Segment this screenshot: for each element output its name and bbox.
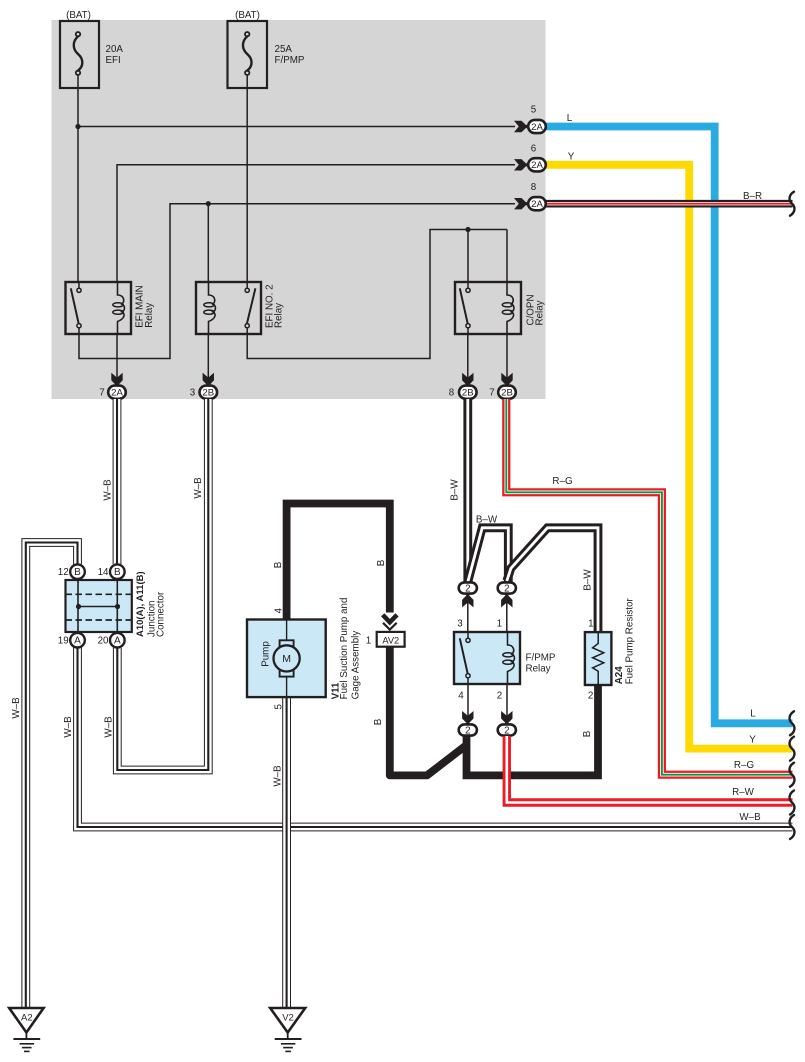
arrow into 3-2B	[203, 373, 214, 388]
connector pin 5 2A	[528, 120, 546, 133]
wire W-B 3-2B loop to junction connector 20A	[117, 399, 208, 770]
svg-text:F/PMP: F/PMP	[526, 653, 556, 664]
svg-text:8: 8	[449, 388, 455, 399]
wire B pump to AV2	[287, 504, 390, 621]
svg-text:B–W: B–W	[582, 569, 593, 591]
wire C/OPN relay switch feed	[467, 230, 469, 283]
relay F/PMP box	[454, 632, 520, 684]
relay EFI NO.2 switch	[245, 282, 255, 334]
svg-text:2A: 2A	[531, 160, 543, 171]
junction connector pin 20 A	[110, 633, 125, 648]
svg-text:(BAT): (BAT)	[235, 10, 260, 21]
arrow out of pin 1	[501, 593, 512, 608]
wire W-B junction connector 12B to ground A2	[26, 543, 78, 1008]
wire node to connector pin 5	[78, 126, 515, 128]
svg-text:L: L	[750, 709, 756, 720]
svg-text:1: 1	[366, 635, 371, 646]
relay EFI NO.2 box	[196, 282, 261, 334]
curl off-page R-G	[790, 763, 795, 787]
curl off-page L	[790, 711, 795, 735]
label A24 Fuel Pump Resistor	[614, 598, 636, 685]
svg-text:B: B	[373, 718, 384, 725]
svg-text:EFI: EFI	[106, 55, 121, 66]
wire F/PMP pin 2 lead	[506, 684, 508, 724]
label C/OPN Relay	[525, 294, 545, 325]
pump V11 box	[247, 620, 326, 698]
wire C/OPN coil to connector 7-2B	[506, 334, 508, 385]
label EFI MAIN Relay	[134, 285, 155, 327]
svg-text:R–G: R–G	[734, 760, 754, 771]
connector 2 below pin 4	[459, 724, 477, 736]
relay C/OPN box	[455, 282, 521, 334]
connector pin 8 2A	[528, 197, 546, 210]
curl off-page W-B	[790, 815, 795, 839]
relay F/PMP coil	[503, 632, 515, 684]
svg-text:(BAT): (BAT)	[66, 10, 91, 21]
fuse 20A EFI	[60, 21, 99, 88]
svg-text:W–B: W–B	[11, 697, 22, 719]
svg-text:5: 5	[531, 105, 537, 116]
svg-text:2: 2	[504, 583, 509, 594]
svg-text:Fuel Pump Resistor: Fuel Pump Resistor	[625, 598, 636, 685]
connector 7 2A	[108, 386, 126, 399]
connector 2 above pin 3	[459, 582, 477, 594]
wire EFI NO.2 relay coil feed	[207, 204, 209, 282]
connector 8 2B	[459, 386, 477, 399]
svg-text:7: 7	[489, 388, 494, 399]
wire C/OPN switch to connector 8-2B	[467, 334, 469, 385]
junction node on EFI fuse line	[75, 124, 80, 129]
wire B-W jumper pin3 to pin1	[468, 528, 509, 582]
svg-text:Relay: Relay	[144, 303, 155, 328]
label V11 Fuel Suction Pump and Gage Assembly	[331, 598, 362, 700]
svg-text:2: 2	[465, 725, 470, 736]
wire R-G 7-2B to off-page	[506, 399, 792, 775]
svg-text:25A: 25A	[275, 44, 293, 55]
svg-text:Y: Y	[749, 735, 756, 746]
svg-text:2: 2	[588, 691, 593, 702]
svg-text:Relay: Relay	[535, 300, 546, 325]
svg-text:8: 8	[531, 182, 537, 193]
curl off-page B-R	[790, 192, 795, 216]
svg-text:2: 2	[465, 583, 470, 594]
wire W-B pump to ground V2	[282, 696, 291, 1007]
svg-text:7: 7	[99, 388, 104, 399]
svg-text:6: 6	[531, 144, 537, 155]
wire F/PMP pin 1 lead	[506, 595, 508, 632]
svg-text:5: 5	[274, 703, 285, 709]
wire F/PMP pin 3 lead	[467, 595, 469, 632]
svg-text:2B: 2B	[462, 388, 474, 399]
svg-text:A10(A), A11(B): A10(A), A11(B)	[135, 571, 146, 637]
wire B-W F/PMP relay pin 1 to resistor	[507, 528, 598, 633]
svg-text:Fuel Suction Pump and: Fuel Suction Pump and	[339, 598, 350, 700]
wire EFI MAIN coil to connector 7-2A	[116, 334, 118, 385]
svg-text:2B: 2B	[501, 388, 513, 399]
svg-text:W–B: W–B	[102, 479, 113, 501]
svg-text:L: L	[567, 113, 573, 124]
relay EFI MAIN box	[66, 282, 132, 334]
svg-text:2: 2	[504, 725, 509, 736]
svg-text:M: M	[282, 653, 291, 665]
svg-text:Y: Y	[568, 152, 575, 163]
wire EFI NO.2 switch output to C/OPN relay	[247, 230, 507, 359]
wire B below AV2 to resistor	[390, 647, 467, 776]
label EFI NO. 2 Relay	[264, 284, 284, 328]
svg-text:2A: 2A	[531, 199, 543, 210]
svg-text:R–W: R–W	[732, 787, 755, 798]
svg-text:Connector: Connector	[156, 591, 167, 637]
curl off-page Y	[790, 737, 795, 761]
svg-text:W–B: W–B	[63, 716, 74, 738]
svg-text:W–B: W–B	[103, 716, 114, 738]
svg-text:B: B	[273, 561, 284, 568]
junction connector A10(A) A11(B) box	[66, 580, 132, 632]
svg-text:A24: A24	[614, 666, 625, 685]
svg-text:3: 3	[190, 388, 196, 399]
svg-text:4: 4	[274, 607, 285, 613]
svg-text:A2: A2	[21, 1013, 33, 1024]
wire EFI MAIN relay coil to connector pin 6	[117, 165, 515, 282]
arrow into 8-2B	[462, 373, 473, 388]
resistor element	[593, 632, 604, 685]
svg-text:Pump: Pump	[260, 641, 271, 667]
svg-text:F/PMP: F/PMP	[275, 55, 305, 66]
svg-text:B: B	[114, 567, 121, 578]
value label 20A EFI	[106, 44, 124, 66]
ground A2	[9, 1008, 43, 1051]
label F/PMP Relay	[526, 653, 556, 675]
relay EFI MAIN coil	[113, 282, 125, 334]
connector 2 above pin 1	[498, 582, 516, 594]
wire B branch to F/PMP relay pin 4	[467, 684, 599, 775]
arrow out of pin 3	[462, 593, 473, 608]
svg-text:B–R: B–R	[743, 191, 762, 202]
arrow into 7-2B	[501, 373, 512, 388]
chevron arrows into AV2	[383, 615, 397, 630]
arrow into pin 5	[514, 121, 529, 132]
connector 2 below pin 2	[498, 724, 516, 736]
svg-text:4: 4	[458, 691, 464, 702]
junction node pin-8 line to EFI NO.2 coil	[206, 201, 211, 206]
arrow into 7-2A	[111, 373, 122, 388]
ground V2	[270, 1008, 305, 1051]
svg-text:R–G: R–G	[552, 476, 572, 487]
svg-text:V2: V2	[282, 1013, 294, 1024]
connector AV2	[377, 632, 405, 647]
arrow into lower connector	[501, 711, 512, 726]
svg-text:Gage Assembly: Gage Assembly	[351, 631, 362, 700]
junction connector pin 14 B	[110, 564, 125, 579]
svg-text:B–W: B–W	[476, 515, 498, 526]
svg-text:1: 1	[588, 619, 593, 630]
wire R-W F/PMP pin 2 to off-page	[507, 736, 793, 803]
svg-text:20A: 20A	[106, 44, 124, 55]
svg-text:3: 3	[457, 619, 463, 630]
svg-text:20: 20	[98, 636, 109, 647]
wire Y (yellow) from connector 6 to off-page	[546, 165, 793, 749]
wire L (blue) from connector 5 to off-page	[546, 127, 793, 724]
wire W-B junction connector 19A to off-page	[78, 647, 793, 827]
wire B-W 8-2B to F/PMP relay pin 3	[463, 399, 472, 582]
svg-text:Relay: Relay	[526, 664, 551, 675]
arrow into lower connector	[462, 711, 473, 726]
pump internal leads	[286, 620, 288, 698]
svg-text:W–B: W–B	[272, 765, 283, 787]
connector 3 2B	[200, 386, 218, 399]
relay block background panel	[52, 20, 546, 399]
wire fuse EFI to EFI MAIN relay switch	[77, 88, 79, 282]
curl off-page R-W	[790, 791, 795, 815]
svg-text:A: A	[114, 636, 121, 647]
relay C/OPN coil	[502, 282, 514, 334]
svg-text:Relay: Relay	[274, 303, 285, 328]
connector 7 2B	[498, 386, 516, 399]
relay EFI MAIN switch	[71, 282, 81, 334]
fuse 25A F/PMP	[228, 21, 268, 88]
junction connector pin 12 B	[70, 564, 85, 579]
svg-text:2A: 2A	[111, 388, 123, 399]
wire EFI MAIN relay switch output to connector pin 8	[79, 204, 515, 359]
svg-text:B: B	[74, 567, 81, 578]
svg-text:W–B: W–B	[193, 477, 204, 499]
arrow into pin 8	[514, 198, 529, 209]
wire B-R from connector 8 to off-page	[546, 200, 793, 208]
motor M	[274, 640, 300, 676]
svg-text:1: 1	[497, 619, 502, 630]
wire C/OPN relay coil feed	[506, 230, 508, 283]
wire F/PMP pin 4 lead	[467, 684, 469, 724]
svg-text:AV2: AV2	[382, 635, 399, 645]
relay F/PMP switch	[460, 632, 470, 684]
relay EFI NO.2 coil	[204, 282, 216, 334]
svg-text:B: B	[376, 559, 387, 566]
wire fuse F/PMP to EFI NO.2 relay switch	[246, 88, 248, 282]
resistor A24 box	[585, 632, 612, 685]
junction node C/OPN feed	[465, 227, 470, 232]
wire EFI NO.2 coil to connector 3-2B	[207, 334, 209, 385]
svg-text:A: A	[74, 636, 81, 647]
svg-text:B: B	[582, 730, 593, 737]
arrow into pin 6	[514, 159, 529, 170]
value label 25A F/PMP	[275, 44, 305, 66]
label A10(A), A11(B) Junction Connector	[135, 571, 167, 637]
relay C/OPN switch	[460, 282, 470, 334]
svg-text:2A: 2A	[531, 122, 543, 133]
svg-text:2B: 2B	[202, 388, 214, 399]
svg-text:W–B: W–B	[739, 812, 761, 823]
svg-text:B–W: B–W	[449, 479, 460, 501]
svg-text:19: 19	[58, 636, 69, 647]
junction connector pin 19 A	[70, 633, 85, 648]
connector pin 6 2A	[528, 158, 546, 171]
svg-text:12: 12	[58, 567, 69, 578]
wire W-B 7-2A to junction connector 14B	[113, 399, 122, 564]
svg-text:2: 2	[497, 691, 502, 702]
svg-text:14: 14	[98, 567, 109, 578]
